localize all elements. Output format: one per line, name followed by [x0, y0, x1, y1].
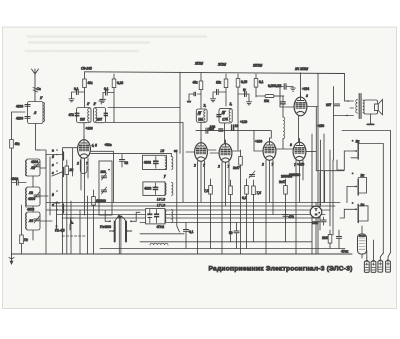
resistor 2к47 right	[284, 186, 288, 195]
cap 4300 left	[17, 180, 19, 185]
svg-text:50: 50	[229, 231, 233, 235]
svg-text:302Г: 302Г	[312, 221, 319, 225]
svg-text:0,1: 0,1	[259, 80, 264, 84]
switch arm lower with arrow	[54, 203, 60, 228]
svg-text:П1-4,5: П1-4,5	[55, 229, 65, 233]
vertical wire x183	[182, 123, 184, 203]
tube V4 pin wires	[266, 160, 273, 254]
svg-text:а: а	[52, 149, 54, 153]
svg-text:4102: 4102	[144, 187, 151, 191]
svg-text:Пч4300: Пч4300	[100, 225, 111, 229]
svg-text:2': 2'	[86, 102, 90, 106]
tube V1 (mixer 2K2M)	[78, 136, 91, 158]
dial lamp	[310, 206, 322, 218]
wire x312 vertical	[311, 134, 313, 254]
Vk switch 1 leads	[344, 151, 357, 158]
svg-text:+100: +100	[86, 127, 93, 131]
drop 5: resistor 0,15 at x238	[237, 74, 239, 79]
cap+gnd below x238	[238, 93, 246, 95]
svg-text:1М0: 1М0	[322, 236, 328, 240]
svg-text:167: 167	[326, 103, 332, 107]
svg-text:4102: 4102	[144, 161, 151, 165]
tube V6 lower output	[293, 139, 306, 161]
dashed mechanical link	[62, 235, 86, 237]
Vk switch 2 lead	[347, 186, 357, 188]
chassis ground at bus left	[11, 254, 13, 262]
bus wire y248	[100, 248, 345, 250]
svg-text:4Пч2: 4Пч2	[157, 225, 165, 229]
IFT1 right box coil loops (left edge)	[95, 109, 97, 122]
IFT1 left winding box	[77, 108, 92, 123]
resistor Pk bottom left	[20, 235, 24, 244]
tall osc coil segment 1	[171, 157, 173, 170]
tall osc coil segment 2	[171, 183, 173, 196]
dial lamp / detector diode near x70	[70, 218, 74, 224]
wire left bus down to ground bus	[11, 148, 13, 254]
svg-text:3: 3	[306, 94, 308, 98]
horizontal choke	[150, 243, 168, 245]
wire x324 vertical	[323, 134, 325, 203]
battery top wires	[367, 240, 391, 257]
svg-text:Пк: Пк	[24, 238, 28, 242]
box2 padder cap (dark)	[155, 183, 157, 195]
ground right of cap	[286, 87, 293, 89]
gang contact dots	[109, 220, 111, 222]
wire x320 vertical	[319, 172, 321, 230]
horizontal bus y122.5	[106, 122, 183, 124]
svg-text:0,1: 0,1	[242, 196, 247, 200]
battery cell 4	[386, 257, 391, 272]
Vk switch 3 bar	[357, 205, 359, 223]
svg-text:у: у	[163, 174, 166, 178]
svg-text:СВ-242: СВ-242	[81, 67, 92, 71]
svg-text:10к: 10к	[264, 99, 270, 103]
svg-text:2К2М: 2К2М	[217, 63, 226, 67]
cap next to dial lamp	[321, 220, 326, 222]
svg-text:+154: +154	[302, 87, 309, 91]
coil box DG at x226	[219, 108, 232, 123]
svg-text:б: б	[52, 155, 54, 159]
tube V4	[263, 138, 276, 160]
wire coil left to left bus	[12, 112, 26, 140]
svg-text:4300: 4300	[11, 177, 18, 181]
svg-text:2,: 2,	[229, 102, 233, 106]
svg-text:Вк: Вк	[361, 174, 365, 178]
switch arm diagonal	[52, 172, 62, 176]
speaker	[375, 104, 379, 111]
cap 82 at x122	[119, 160, 124, 162]
svg-text:2: 2	[76, 162, 79, 166]
bottom ground bus	[12, 253, 353, 255]
svg-text:4800: 4800	[16, 105, 23, 109]
svg-text:2К2М: 2К2М	[194, 62, 203, 66]
wire x80 vertical	[79, 210, 81, 254]
horizontal bus y107.5	[108, 107, 180, 109]
cap with ground mid	[249, 175, 254, 177]
dark cap on AVC wire A	[218, 128, 223, 129]
resistor row mid	[209, 186, 213, 195]
svg-text:0,1: 0,1	[74, 87, 79, 91]
wire IFT1 to tube V1	[83, 123, 85, 140]
box1 padder cap (dark)	[155, 157, 157, 169]
cap 50	[234, 231, 239, 233]
box3 cap 1 (dark)	[149, 210, 151, 223]
right corner wire from rail	[342, 131, 391, 253]
resistor left edge	[10, 140, 14, 149]
svg-text:7,5: 7,5	[257, 191, 262, 195]
tube V3	[219, 140, 232, 162]
oscillator box 1 L5	[143, 155, 167, 169]
svg-text:0,1: 0,1	[104, 87, 109, 91]
gang top curves	[115, 216, 126, 222]
OT primary loops	[356, 100, 358, 114]
faint ghost print-through text	[26, 37, 208, 52]
switch bars	[63, 152, 65, 213]
cap right bottom	[336, 237, 341, 239]
battery cell 1	[364, 257, 369, 272]
resistor row lead wires	[211, 179, 286, 249]
box3 coil right edge	[164, 210, 166, 222]
Vk switch 3 lead	[344, 208, 356, 210]
AVC wire y130.5	[196, 131, 271, 138]
OT primary arrows	[346, 101, 354, 116]
svg-text:2к47: 2к47	[279, 180, 286, 184]
svg-text:д: д	[52, 193, 54, 197]
svg-text:Вк: Вк	[361, 203, 365, 207]
svg-text:2Ж2М: 2Ж2М	[252, 64, 262, 68]
tube V4 grid and plate wires	[254, 131, 283, 151]
oscillator box 2	[143, 182, 165, 196]
resistor 45k at x201	[199, 81, 203, 90]
battery cell 2	[371, 257, 376, 272]
svg-text:2к47: 2к47	[233, 166, 240, 170]
wire x46 vertical	[38, 150, 47, 254]
V5 plate to transformer	[307, 73, 348, 254]
svg-text:ДГ: ДГ	[222, 111, 226, 115]
resistor Bk right of switch	[65, 166, 69, 175]
bus wire y202	[46, 202, 340, 204]
speaker ground	[370, 114, 372, 124]
coil L3	[26, 187, 40, 206]
antenna	[32, 69, 39, 112]
coil L2	[26, 159, 40, 176]
horizontal resistor 10k	[256, 95, 265, 97]
svg-text:+120: +120	[240, 120, 247, 124]
svg-text:2': 2'	[93, 102, 97, 106]
trimmer in L4	[34, 219, 39, 221]
box2 coil right edge	[165, 183, 167, 195]
svg-text:8: 8	[290, 143, 292, 147]
coil box at x202	[196, 109, 207, 122]
cap at top of coil	[280, 101, 285, 102]
coil L4	[26, 212, 40, 230]
svg-text:0,15: 0,15	[241, 80, 247, 84]
svg-text:0,23: 0,23	[117, 81, 123, 85]
left mid-bus horizontals	[46, 154, 63, 156]
svg-text:Радиоприемник Электросигнал-3: Радиоприемник Электросигнал-3 (ЭЛС-3)	[209, 266, 353, 273]
svg-text:45к: 45к	[193, 81, 199, 85]
bus wire y218	[62, 217, 320, 219]
V1 pins down	[81, 158, 88, 215]
svg-text:45к: 45к	[15, 142, 21, 146]
wire x71 vertical	[70, 201, 72, 254]
tube V6 pin wires	[296, 161, 303, 255]
gang wires	[105, 211, 140, 222]
Vk switch 1 bar	[357, 143, 359, 159]
svg-text:300: 300	[101, 170, 107, 174]
tube V2	[195, 139, 208, 161]
svg-text:+50в: +50в	[105, 143, 112, 147]
cap+gnd left of x226	[218, 91, 226, 93]
tube V2 pin wires	[198, 161, 205, 254]
box1 coil right edge	[165, 157, 167, 169]
resistor 0,1 mid row 3	[245, 186, 249, 195]
speaker voice-coil box	[364, 100, 378, 114]
cap + ground left of drop2	[107, 92, 114, 94]
svg-text:269И03: 269И03	[289, 173, 300, 177]
svg-text:2Н 2К2М: 2Н 2К2М	[294, 67, 308, 71]
IFT1 left box coil loops (right edge)	[88, 109, 90, 122]
svg-text:1М: 1М	[198, 118, 203, 122]
capacitor 4300 top-left of coil	[25, 105, 30, 107]
antenna coil L1 box	[28, 102, 44, 124]
small ground above right box	[99, 100, 104, 104]
svg-text:+150: +150	[297, 163, 304, 167]
drop 6: resistor 0,1 at x256	[255, 74, 257, 79]
V1 grid line left	[63, 148, 78, 176]
svg-text:2: 2	[193, 164, 196, 168]
bus wire y222	[140, 222, 316, 224]
tube V6 grid wire	[283, 144, 293, 149]
output transformer core	[359, 94, 361, 119]
tube V3 pin wires	[222, 162, 229, 254]
svg-text:2: 2	[217, 165, 220, 169]
wire antenna coil bottom down	[36, 124, 41, 151]
electrolytic 47mk	[358, 234, 367, 254]
svg-text:82: 82	[125, 161, 129, 165]
svg-text:1W: 1W	[80, 118, 85, 122]
svg-text:2: 2	[261, 163, 264, 167]
osc right vertical	[177, 150, 180, 232]
bus wire y233	[140, 233, 184, 235]
Vk switch 3 right loop	[358, 206, 368, 221]
DG dark cap left edge	[216, 114, 221, 115]
cap on AVC wire left	[206, 128, 208, 133]
cap 0,1 mid bottom	[183, 230, 188, 232]
gang section 2 stator bar	[125, 222, 127, 242]
capacitor 4200 lower-left of coil	[25, 117, 30, 119]
drop 2: resistor 0,23	[113, 74, 115, 79]
IF box 3	[146, 209, 166, 224]
vertical IF coil feeding V5/V6	[283, 117, 285, 139]
tall osc coil segment 3	[171, 210, 173, 223]
svg-text:4300: 4300	[31, 160, 38, 164]
svg-text:0,1: 0,1	[189, 230, 194, 234]
svg-text:Л4: Л4	[28, 219, 33, 223]
bus wire y241	[140, 241, 312, 243]
svg-text:Вк: Вк	[70, 168, 74, 172]
svg-text:47мк: 47мк	[341, 250, 349, 254]
svg-text:+150: +150	[317, 124, 324, 128]
svg-text:7,5: 7,5	[204, 189, 209, 193]
cap to ground at x195	[198, 93, 202, 95]
trimmer caps column x100-113	[99, 161, 112, 215]
tuning gang section 1 stator bar	[114, 222, 116, 242]
svg-text:2': 2'	[39, 96, 43, 100]
gang arms	[109, 230, 132, 232]
Vk switch 3 contact dot	[352, 202, 354, 204]
svg-text:473: 473	[69, 113, 75, 117]
IFT1 cap on right edge (dark)	[104, 113, 108, 115]
svg-text:2,: 2,	[203, 104, 207, 108]
svg-text:ДГ: ДГ	[198, 111, 202, 115]
OT secondary loops	[363, 100, 365, 113]
bus wire y214	[57, 214, 325, 216]
drop 1: resistor 40k	[84, 72, 86, 79]
svg-text:40к: 40к	[88, 81, 94, 85]
wire x62.5 vertical	[62, 177, 64, 255]
DG coil loops right edge	[229, 109, 231, 121]
wire x333 vertical	[332, 160, 334, 235]
svg-text:Л3: Л3	[28, 191, 33, 195]
svg-text:4200: 4200	[16, 117, 23, 121]
IFT1 cap on left edge (dark)	[75, 113, 80, 115]
trimmer cap right of L2	[34, 165, 39, 167]
svg-text:107: 107	[97, 118, 103, 122]
resistor between V2 V3	[239, 157, 243, 166]
drop 3 at x202	[200, 73, 202, 110]
grid wire to output tube V5	[280, 96, 294, 107]
svg-text:4, 5: 4, 5	[92, 144, 98, 148]
wire x114 down	[113, 108, 115, 123]
wire x320.5 vertical	[320, 140, 322, 206]
svg-text:15к: 15к	[216, 81, 222, 85]
Vk switch 1 contact dot	[352, 140, 354, 142]
wires around L2-L4	[32, 176, 34, 240]
resistor 7,5 mid row 4	[252, 186, 256, 195]
resistor 1M at x93.5	[92, 197, 96, 206]
svg-text:17б: 17б	[222, 118, 228, 122]
svg-text:+100: +100	[255, 140, 262, 144]
svg-text:L6 L8: L6 L8	[157, 198, 165, 202]
svg-text:L7 L9: L7 L9	[157, 204, 165, 208]
svg-text:470: 470	[289, 215, 295, 219]
battery cell 3	[378, 257, 383, 272]
wire x330 vertical	[329, 150, 331, 226]
tube V6 plate wire to transformer	[307, 107, 345, 203]
svg-text:L5: L5	[161, 149, 165, 153]
drop 4: resistor 15k at x226	[225, 74, 227, 79]
resistor 1M right bottom	[328, 235, 332, 244]
tube V3 grid and plate wires	[210, 151, 240, 153]
coil loops right edge	[43, 103, 45, 122]
Vk switch 2 right loop	[358, 178, 366, 194]
Vk switch 2 bar	[357, 179, 359, 195]
dark cap on AVC wire B (vertical plates)	[232, 125, 234, 130]
bus wire y210	[46, 209, 330, 211]
svg-text:Са: Са	[37, 87, 41, 91]
Vk switch 2 contact dot	[352, 172, 354, 174]
gang rotor shaft	[119, 219, 121, 255]
wire x50 vertical	[49, 157, 51, 215]
svg-text:0,5И0,5Л: 0,5И0,5Л	[268, 84, 281, 88]
cap at x285	[275, 87, 283, 97]
svg-text:100: 100	[209, 127, 215, 131]
IFT1 right winding box	[94, 108, 106, 123]
wire x87.5 vertical	[87, 196, 89, 254]
drop x310 to V5	[300, 73, 302, 97]
tube V5 upper output	[294, 94, 307, 116]
trimmer in L3	[34, 195, 39, 197]
V1 plate lines right	[91, 151, 114, 202]
vertical wire x180	[179, 72, 181, 153]
wire switch stub	[62, 150, 64, 152]
bus wire y206	[52, 205, 335, 207]
box3 cap 2 (dark)	[156, 210, 158, 223]
top B+ rail	[85, 72, 345, 74]
band switch contact dots	[56, 149, 58, 210]
tube V2 grid and plate wires	[186, 150, 216, 152]
resistor mid row 2	[229, 186, 233, 195]
cap 0,03 + ground left of drop1	[78, 91, 85, 93]
cap 470	[283, 215, 288, 217]
